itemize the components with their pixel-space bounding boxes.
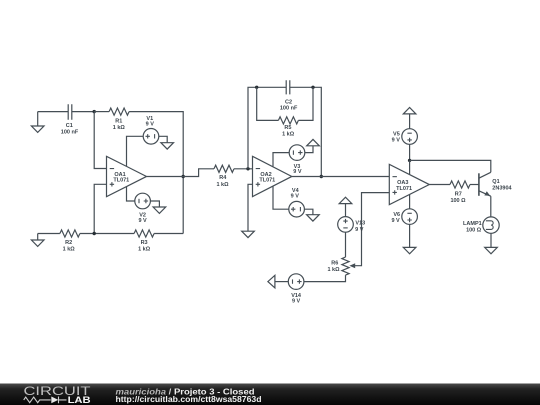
V4 label [291,188,300,199]
LAMP1 label [463,221,482,233]
svg-text:9 V: 9 V [392,137,401,143]
wire V13 to R6 [345,232,347,257]
wire Q1 emitter to LAMP1 [490,196,492,217]
wire R5 branch right [298,87,313,120]
wire node A down to OA1 inverting input [94,112,106,169]
svg-text:100 nF: 100 nF [280,106,298,112]
wire OA3 non-inverting input to wiper [353,193,389,266]
R6 value label [327,260,340,273]
voltage source V6 [402,209,418,225]
wire R4 to OA2 inverting input [234,168,253,170]
V13 label [355,221,365,234]
ground (OA2 +) [242,231,255,237]
svg-text:9 V: 9 V [292,299,301,305]
wire C2 to right vertical down to output [290,87,322,176]
svg-text:9 V: 9 V [293,169,302,175]
V3 label [293,164,302,175]
R3 value label [138,240,151,253]
supply symbol (V13, up triangle) [339,197,352,203]
ground (V6) [403,247,416,253]
svg-text:1 kΩ: 1 kΩ [282,132,295,138]
wire OA1 output with jog to R4 [147,169,215,177]
supply symbol (V3, up triangle) [307,139,320,145]
op-amp OA1 [107,156,147,196]
R4 value label [216,175,229,188]
capacitor C1 [68,104,72,120]
resistor R7 [450,181,470,188]
voltage source V13 [338,217,354,233]
node OA2 output junction [320,175,323,178]
wire LAMP1 to ground [490,233,492,247]
url text [116,395,262,404]
ground (V2) [153,207,166,213]
resistor R3 [134,230,154,237]
svg-text:TL071: TL071 [259,178,275,184]
title bar background [0,384,540,405]
wire R3 to right vertical [154,233,183,235]
V14 label [291,293,302,305]
svg-text:R4: R4 [219,175,227,181]
voltage source V2 [135,193,151,209]
svg-text:R3: R3 [141,240,148,246]
ground (V1) [161,143,174,149]
ground (V4) [307,215,320,221]
svg-text:100 nF: 100 nF [61,129,79,135]
resistor R1 [109,108,129,115]
wire V1 to ground [159,136,167,142]
voltage source V4 [289,201,305,217]
svg-text:9 V: 9 V [355,227,364,233]
wire V14 to left ground [275,281,288,283]
svg-text:V13: V13 [355,221,365,227]
potentiometer R6 [342,257,349,275]
author / title text [116,387,255,396]
C2 value label [280,100,298,112]
transistor Q1 2N3904 [479,172,491,196]
svg-text:1 kΩ: 1 kΩ [113,125,126,131]
svg-text:R1: R1 [115,118,122,124]
svg-text:LAB: LAB [68,395,91,405]
CircuitLab logo text CIRCUIT [24,385,91,398]
wire R2 to node B [80,233,134,235]
wire V4 to ground [304,209,313,215]
node OA2 inverting junction [246,167,249,170]
OA1 V+ pin wire [127,136,144,166]
node A junction (C1/R1/inverting input) [93,110,96,113]
node C2/R5 left junction [255,86,258,89]
wire feedback left vertical [248,87,286,169]
wiper arrow (R6 potentiometer) [349,263,355,268]
wire R7 to Q1 base [470,184,479,186]
svg-text:9 V: 9 V [291,194,300,200]
CircuitLab logo resistor-diode glyph [24,397,67,404]
wire V6 to ground [409,224,411,247]
wire R5 branch left [257,87,279,120]
svg-text:2N3904: 2N3904 [492,186,512,192]
R2 value label [63,240,76,253]
svg-text:C1: C1 [66,123,73,129]
Q1 label [492,179,512,191]
voltage source V5 [402,129,418,145]
V5 label [392,131,401,143]
op-amp OA2 [253,156,292,196]
ground (bottom-left rail) [31,234,44,247]
R5 value label [282,125,295,137]
svg-text:LAMP1: LAMP1 [463,221,482,227]
ground (V14, left triangle) [268,275,275,288]
svg-text:100 Ω: 100 Ω [466,227,482,233]
svg-text:9 V: 9 V [391,218,400,224]
op-amp OA3 [389,164,429,204]
svg-text:TL071: TL071 [396,186,412,192]
V2 label [138,213,147,224]
resistor R4 [214,165,234,172]
V1 label [146,116,155,127]
svg-text:100 Ω: 100 Ω [450,198,466,204]
voltage source V1 [143,129,159,145]
voltage source V3 [289,145,305,161]
wire R1 to right vertical and down to bottom rail [129,112,183,234]
wire bottom rail ground to R2 [38,233,60,235]
C1 value label [61,123,79,135]
wire R6 bottom to V14 [304,275,346,282]
svg-text:http://circuitlab.com/ctt8wsa5: http://circuitlab.com/ctt8wsa58763d [116,395,262,404]
svg-text:R2: R2 [65,240,72,246]
OA2 V+ pin wire [273,153,289,167]
svg-text:1 kΩ: 1 kΩ [138,247,151,253]
capacitor C2 [286,80,290,94]
svg-text:R5: R5 [284,125,291,131]
node C2/R5 right junction [311,86,314,89]
ground (input, left of C1) [31,112,44,133]
node B junction (R2/R3/non-inverting) [93,232,96,235]
OA3 V+ pin wire [409,160,411,174]
ground (LAMP1) [485,247,498,253]
wire V5 top [409,114,411,129]
svg-text:1 kΩ: 1 kΩ [63,247,76,253]
R7 value label [450,191,466,204]
wire node C to Q1 collector [410,160,491,172]
wire V2 to ground [150,201,159,207]
OA1 V- pin wire [127,187,135,202]
svg-text:9 V: 9 V [138,218,147,224]
wire node A to R1 [94,111,109,113]
svg-text:9 V: 9 V [146,121,155,127]
svg-text:Q1: Q1 [492,179,499,185]
node C junction (V5/OA3 V+/collector rail) [408,159,411,162]
wire OA3 output to R7 [429,184,450,186]
wire V13 top [345,204,347,217]
svg-text:R7: R7 [455,191,462,197]
wire V3 to up rail [305,146,313,153]
wire input top-left to C1 [38,111,68,113]
svg-text:R6: R6 [331,260,338,266]
OA3 V- pin wire [409,195,411,209]
lamp LAMP1 [483,217,499,233]
supply symbol (V5, up triangle) [403,108,416,114]
wire C1 to node A [72,111,94,113]
wire OA2 non-inverting to ground [248,184,253,231]
V6 label [391,212,400,224]
voltage source V14 [288,274,304,290]
resistor R2 [60,230,80,237]
resistor R5 [278,117,298,124]
node OA1 output junction [182,175,185,178]
svg-text:1 kΩ: 1 kΩ [327,267,340,273]
svg-text:1 kΩ: 1 kΩ [216,182,229,188]
wire V5 to node C [409,144,411,160]
wire OA2 output to OA3 inverting input [292,176,390,178]
CircuitLab logo text LAB [68,395,91,405]
wire OA1 non-inverting input from bottom rail [94,184,106,233]
R1 value label [113,118,126,131]
svg-text:TL071: TL071 [113,178,129,184]
OA2 V- pin wire [273,187,289,210]
